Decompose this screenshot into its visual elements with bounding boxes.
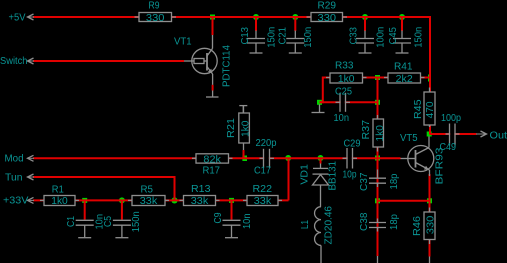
resistor R45 vertical bbox=[424, 88, 435, 128]
wire VT1 emitter bbox=[212, 85, 214, 91]
wire C38 vertical bbox=[377, 201, 379, 256]
resistor R5 bbox=[128, 196, 169, 206]
wire +5V rail to R45 bbox=[33, 17, 430, 134]
wire R33 left down to C25 bbox=[320, 78, 331, 103]
svg-text:C29: C29 bbox=[344, 139, 361, 150]
wire R37 vertical bbox=[377, 78, 379, 202]
resistor R46 vertical bbox=[424, 208, 435, 245]
node R33/R41 junction bbox=[375, 75, 380, 80]
svg-text:150n: 150n bbox=[303, 27, 314, 48]
svg-text:R17: R17 bbox=[203, 166, 221, 177]
svg-text:VT1: VT1 bbox=[174, 36, 192, 47]
svg-text:C1: C1 bbox=[66, 216, 77, 227]
svg-text:R5: R5 bbox=[141, 184, 154, 195]
svg-text:1k0: 1k0 bbox=[338, 74, 355, 85]
wire Switch to VT1 base bbox=[33, 60, 184, 62]
node C13 on +5V rail bbox=[253, 14, 259, 20]
ground VT1 bbox=[206, 96, 219, 98]
node R21 bottom on mod line bbox=[242, 156, 247, 162]
node C25 right junction bbox=[375, 100, 380, 105]
wire R33 to R41 bbox=[363, 77, 431, 79]
svg-text:C13: C13 bbox=[240, 27, 251, 45]
svg-text:L1: L1 bbox=[300, 220, 311, 229]
svg-text:18p: 18p bbox=[389, 214, 400, 230]
svg-text:Mod: Mod bbox=[5, 154, 24, 165]
wire C25 line bbox=[320, 101, 378, 103]
node R46 emitter rail right bbox=[427, 198, 432, 203]
wire R21 bottom bbox=[243, 150, 245, 158]
svg-text:Switch: Switch bbox=[0, 56, 28, 67]
node R37 bottom on mod line bbox=[375, 156, 380, 161]
node C21 on +5V rail bbox=[292, 14, 298, 20]
svg-text:2k2: 2k2 bbox=[396, 74, 413, 85]
wire +33V line bbox=[33, 199, 289, 201]
node C1 junction bbox=[82, 198, 87, 203]
svg-text:BB131: BB131 bbox=[328, 161, 339, 191]
svg-text:330: 330 bbox=[146, 13, 165, 24]
svg-text:82k: 82k bbox=[203, 154, 222, 165]
resistor R21 vertical bbox=[239, 106, 250, 150]
svg-text:10n: 10n bbox=[334, 113, 350, 124]
svg-text:C5: C5 bbox=[103, 216, 114, 227]
svg-text:R41: R41 bbox=[394, 62, 413, 73]
svg-text:C38: C38 bbox=[359, 212, 370, 231]
wire R46 vertical bbox=[429, 201, 431, 257]
ground C5 bbox=[115, 237, 128, 239]
node C33 on +5V rail bbox=[362, 14, 368, 20]
wire emitter rail bbox=[378, 200, 430, 202]
svg-text:10n: 10n bbox=[242, 214, 253, 230]
svg-text:R46: R46 bbox=[412, 216, 423, 236]
capacitor C38 bbox=[369, 219, 386, 263]
wire R46 bottom gray bbox=[429, 257, 431, 263]
svg-text:1k0: 1k0 bbox=[241, 120, 252, 137]
wire Mod line bbox=[33, 157, 401, 159]
node C37 emitter rail left bbox=[375, 198, 380, 203]
svg-text:10p: 10p bbox=[343, 170, 357, 181]
wire VT1 collector bbox=[212, 17, 214, 35]
wire C45 stub bbox=[401, 17, 403, 31]
svg-text:100p: 100p bbox=[441, 113, 461, 124]
svg-text:Tun: Tun bbox=[5, 172, 23, 183]
node C25 left junction bbox=[317, 100, 322, 105]
transistor VT5 bbox=[401, 137, 434, 177]
svg-text:R37: R37 bbox=[361, 120, 372, 140]
node C9 junction bbox=[229, 198, 234, 203]
svg-text:150n: 150n bbox=[414, 27, 425, 48]
resistor R29 bbox=[307, 13, 348, 22]
node VD1 on mod line bbox=[318, 155, 324, 161]
wire Tun line bbox=[33, 177, 175, 200]
resistor R1 bbox=[40, 196, 79, 206]
pin arrow Out bbox=[476, 131, 487, 137]
svg-text:PDTC114: PDTC114 bbox=[222, 45, 233, 87]
svg-text:BFR93: BFR93 bbox=[434, 147, 445, 185]
wire C33 stub bbox=[364, 17, 366, 31]
wire C13 stub bbox=[255, 17, 257, 31]
ground C1 bbox=[78, 237, 91, 239]
inductor L1 bbox=[315, 207, 321, 263]
svg-text:330: 330 bbox=[426, 215, 437, 234]
capacitor C17 bbox=[260, 149, 275, 168]
node Tun junction bbox=[171, 197, 177, 203]
svg-text:C25: C25 bbox=[335, 87, 352, 98]
diode VD1 varactor bbox=[313, 164, 329, 207]
capacitor C13 bbox=[247, 31, 265, 53]
svg-text:R29: R29 bbox=[318, 1, 337, 12]
capacitor C1 bbox=[76, 220, 94, 237]
node R45 collector out junction bbox=[427, 132, 432, 137]
resistor R41 bbox=[384, 73, 425, 83]
capacitor C33 bbox=[356, 31, 374, 53]
svg-text:R13: R13 bbox=[191, 184, 211, 195]
resistor R13 bbox=[180, 196, 220, 206]
svg-text:ZD20.46: ZD20.46 bbox=[324, 206, 335, 245]
capacitor C25 bbox=[336, 93, 351, 112]
wire Out line bbox=[430, 133, 477, 135]
ground C25 left bbox=[312, 105, 325, 113]
node R41 right pin end bbox=[428, 75, 431, 82]
pin arrow Mod bbox=[28, 155, 35, 161]
svg-text:220p: 220p bbox=[256, 138, 277, 149]
svg-text:150n: 150n bbox=[131, 211, 142, 232]
pin arrow +33V bbox=[28, 197, 35, 203]
capacitor C37 bbox=[369, 170, 386, 188]
svg-text:1k0: 1k0 bbox=[375, 125, 386, 142]
svg-text:33k: 33k bbox=[191, 196, 210, 207]
svg-text:+33V: +33V bbox=[3, 195, 29, 206]
svg-text:R21: R21 bbox=[226, 118, 237, 138]
ground C21 bbox=[289, 52, 302, 54]
svg-text:R22: R22 bbox=[253, 184, 273, 195]
svg-text:C33: C33 bbox=[349, 27, 360, 45]
svg-text:+5V: +5V bbox=[9, 13, 26, 24]
capacitor C5 bbox=[113, 220, 131, 237]
resistor R37 vertical bbox=[373, 115, 384, 152]
capacitor C9 bbox=[223, 220, 241, 237]
pin arrow Switch bbox=[28, 58, 35, 64]
wire C1 stub bbox=[84, 200, 86, 219]
node C45 on +5V rail bbox=[399, 14, 405, 20]
svg-text:R9: R9 bbox=[149, 1, 160, 12]
wire C5 stub bbox=[121, 200, 123, 219]
wire VT5 emitter bbox=[429, 174, 431, 201]
resistor R22 bbox=[243, 196, 282, 206]
resistor R17 bbox=[192, 154, 233, 163]
svg-text:330: 330 bbox=[318, 13, 337, 24]
svg-text:33k: 33k bbox=[254, 196, 273, 207]
svg-text:470: 470 bbox=[425, 101, 436, 118]
supply bar above R21 bbox=[239, 106, 247, 113]
transistor VT1 bbox=[184, 35, 217, 97]
capacitor C29 bbox=[343, 148, 358, 169]
wire VD1 top stub bbox=[320, 158, 322, 164]
ground C13 bbox=[250, 52, 263, 54]
pin arrow Tun bbox=[28, 174, 35, 180]
wire R22 up to mod line bbox=[288, 158, 290, 200]
capacitor C45 bbox=[393, 31, 411, 53]
svg-text:VT5: VT5 bbox=[400, 133, 418, 144]
svg-text:18p: 18p bbox=[389, 173, 400, 189]
node C5 junction bbox=[119, 197, 125, 203]
svg-text:C17: C17 bbox=[254, 166, 271, 177]
svg-text:R45: R45 bbox=[413, 99, 424, 119]
svg-text:R1: R1 bbox=[52, 184, 64, 195]
ground C33 bbox=[359, 52, 372, 54]
svg-text:C37: C37 bbox=[359, 172, 370, 191]
svg-text:R33: R33 bbox=[335, 61, 354, 72]
node C17/R22 junction bbox=[285, 155, 291, 161]
svg-text:C9: C9 bbox=[213, 212, 224, 223]
svg-text:150n: 150n bbox=[267, 27, 278, 48]
svg-text:Out: Out bbox=[490, 131, 507, 142]
svg-text:VD1: VD1 bbox=[300, 164, 311, 185]
wire C9 stub bbox=[231, 200, 233, 219]
ground C45 bbox=[396, 52, 409, 54]
svg-text:1k0: 1k0 bbox=[51, 196, 68, 207]
resistor R33 bbox=[326, 73, 367, 83]
ground C9 bbox=[225, 237, 238, 239]
pin arrow +5V bbox=[28, 14, 35, 20]
node collector VT1 on +5V rail bbox=[210, 15, 215, 20]
svg-text:C21: C21 bbox=[278, 27, 289, 45]
svg-text:100n: 100n bbox=[376, 27, 387, 48]
resistor R9 bbox=[135, 13, 177, 22]
capacitor C21 bbox=[286, 31, 304, 53]
svg-text:C45: C45 bbox=[388, 27, 399, 45]
capacitor C49 bbox=[446, 124, 460, 146]
svg-text:33k: 33k bbox=[140, 196, 159, 207]
wire C21 stub bbox=[294, 17, 296, 31]
